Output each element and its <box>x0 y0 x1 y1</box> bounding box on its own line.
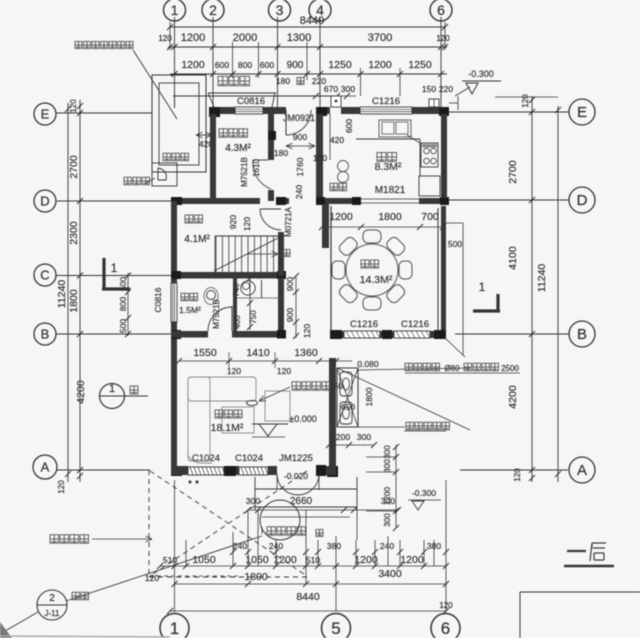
svg-text:2500: 2500 <box>501 364 519 373</box>
svg-text:900: 900 <box>285 308 295 322</box>
svg-text:3: 3 <box>276 2 284 18</box>
svg-text:M0721A: M0721A <box>284 206 293 236</box>
svg-text:120: 120 <box>439 601 453 610</box>
svg-text:J-11: J-11 <box>45 609 61 618</box>
svg-text:900: 900 <box>293 132 307 142</box>
svg-text:C1216: C1216 <box>350 319 378 330</box>
svg-text:4200: 4200 <box>75 380 87 404</box>
svg-text:180: 180 <box>274 148 288 158</box>
svg-text:4100: 4100 <box>507 246 519 270</box>
svg-text:1410: 1410 <box>246 347 270 359</box>
svg-text:1610: 1610 <box>252 159 261 177</box>
svg-text:800: 800 <box>118 297 128 311</box>
svg-text:C: C <box>40 268 49 283</box>
svg-text:1250: 1250 <box>328 59 352 71</box>
svg-text:120: 120 <box>302 324 312 338</box>
svg-text:1360: 1360 <box>294 347 318 359</box>
svg-text:1200: 1200 <box>400 554 424 566</box>
svg-text:3400: 3400 <box>378 568 402 580</box>
svg-text:670: 670 <box>324 84 338 94</box>
svg-text:1200: 1200 <box>329 211 353 223</box>
svg-text:B: B <box>577 326 587 343</box>
svg-text:1200: 1200 <box>181 32 205 44</box>
svg-text:18.1M²: 18.1M² <box>211 422 244 434</box>
svg-text:C0816: C0816 <box>153 287 163 312</box>
svg-text:-0.300: -0.300 <box>468 69 494 79</box>
svg-text:240: 240 <box>380 541 394 551</box>
svg-text:1800: 1800 <box>68 289 80 313</box>
svg-text:510: 510 <box>163 555 177 565</box>
svg-text:2700: 2700 <box>507 160 519 184</box>
svg-text:650: 650 <box>341 402 355 412</box>
svg-text:2000: 2000 <box>233 32 257 44</box>
svg-text:120: 120 <box>513 468 522 482</box>
svg-text:1: 1 <box>171 2 179 18</box>
svg-text:0.080: 0.080 <box>357 359 379 369</box>
svg-text:E: E <box>41 107 50 122</box>
svg-text:300: 300 <box>341 84 355 94</box>
svg-text:1300: 1300 <box>287 32 311 44</box>
svg-text:±0.000: ±0.000 <box>289 414 316 424</box>
svg-text:510: 510 <box>306 555 320 565</box>
svg-text:C1216: C1216 <box>372 96 400 107</box>
svg-text:500: 500 <box>448 239 462 249</box>
svg-text:3700: 3700 <box>368 32 392 44</box>
svg-text:11240: 11240 <box>56 280 68 309</box>
svg-text:100: 100 <box>313 153 327 163</box>
svg-text:JM0921: JM0921 <box>283 113 315 123</box>
svg-text:1: 1 <box>109 383 115 395</box>
svg-text:1550: 1550 <box>193 347 217 359</box>
svg-text:B: B <box>41 327 50 342</box>
svg-text:1: 1 <box>170 619 179 638</box>
svg-text:JM1225: JM1225 <box>279 453 313 464</box>
svg-text:200: 200 <box>336 432 350 442</box>
svg-text:800: 800 <box>238 60 252 70</box>
svg-text:2660: 2660 <box>290 496 313 507</box>
svg-text:4200: 4200 <box>507 385 519 409</box>
svg-text:A: A <box>577 462 587 479</box>
svg-text:2300: 2300 <box>68 221 80 245</box>
svg-text:D: D <box>40 194 49 209</box>
svg-text:150: 150 <box>422 84 436 94</box>
svg-text:1250: 1250 <box>408 59 432 71</box>
svg-text:120: 120 <box>436 34 450 43</box>
svg-text:1200: 1200 <box>354 554 378 566</box>
svg-text:11240: 11240 <box>536 264 548 293</box>
svg-text:D: D <box>577 192 588 209</box>
svg-text:1200: 1200 <box>181 59 205 71</box>
svg-text:500: 500 <box>118 319 128 333</box>
svg-text:2700: 2700 <box>68 155 80 179</box>
svg-text:4.3M²: 4.3M² <box>225 143 251 154</box>
svg-text:300: 300 <box>381 496 395 506</box>
svg-text:2: 2 <box>209 2 217 18</box>
svg-text:150: 150 <box>329 382 343 391</box>
svg-text:120: 120 <box>145 573 159 583</box>
svg-text:900: 900 <box>287 60 304 71</box>
svg-text:4: 4 <box>316 2 324 18</box>
svg-text:600: 600 <box>344 119 354 133</box>
svg-text:300: 300 <box>383 513 392 527</box>
svg-text:A: A <box>41 460 50 475</box>
svg-text:4.1M²: 4.1M² <box>184 234 210 245</box>
svg-text:300: 300 <box>383 445 392 459</box>
svg-text:240: 240 <box>294 185 304 199</box>
svg-text:1800: 1800 <box>378 211 402 223</box>
svg-text:1760: 1760 <box>295 157 305 176</box>
svg-text:120: 120 <box>69 99 78 113</box>
svg-text:14.3M²: 14.3M² <box>360 274 393 286</box>
svg-text:600: 600 <box>215 60 229 70</box>
svg-text:400: 400 <box>233 315 242 329</box>
svg-text:120: 120 <box>57 480 66 494</box>
svg-text:1800: 1800 <box>364 387 374 406</box>
svg-text:M7521B: M7521B <box>212 299 221 329</box>
svg-text:180: 180 <box>276 76 290 86</box>
svg-text:380: 380 <box>427 541 441 551</box>
svg-text:240: 240 <box>269 541 283 551</box>
svg-text:1200: 1200 <box>273 554 297 566</box>
svg-text:-0.300: -0.300 <box>412 488 436 498</box>
svg-text:120: 120 <box>277 366 291 376</box>
svg-text:120: 120 <box>521 94 530 108</box>
svg-text:6: 6 <box>441 619 450 638</box>
svg-text:120: 120 <box>242 217 252 231</box>
svg-text:1.5M²: 1.5M² <box>179 305 201 315</box>
svg-text:6: 6 <box>437 2 445 18</box>
svg-text:380: 380 <box>327 541 341 551</box>
svg-text:1800: 1800 <box>244 571 268 583</box>
svg-text:920: 920 <box>228 215 238 229</box>
svg-text:1050: 1050 <box>192 554 216 566</box>
svg-text:C0816: C0816 <box>237 96 265 107</box>
svg-text:600: 600 <box>260 60 274 70</box>
svg-text:1200: 1200 <box>368 59 392 71</box>
svg-text:C1024: C1024 <box>235 453 263 464</box>
svg-text:420: 420 <box>330 135 344 145</box>
svg-text:2: 2 <box>49 593 55 604</box>
svg-text:Ø80: Ø80 <box>444 364 460 373</box>
svg-text:8440: 8440 <box>296 591 320 603</box>
svg-text:5: 5 <box>331 619 340 638</box>
svg-text:M7521B: M7521B <box>240 157 249 187</box>
svg-text:C1216: C1216 <box>401 319 429 330</box>
svg-text:M1821: M1821 <box>375 185 406 196</box>
svg-text:240: 240 <box>233 541 247 551</box>
svg-text:900: 900 <box>285 277 295 291</box>
svg-text:1050: 1050 <box>245 554 269 566</box>
svg-text:1: 1 <box>479 280 486 294</box>
svg-text:300: 300 <box>383 459 392 473</box>
svg-text:E: E <box>577 104 587 121</box>
svg-text:300: 300 <box>357 432 371 442</box>
svg-text:1: 1 <box>111 261 118 275</box>
svg-text:8.3M²: 8.3M² <box>375 161 402 173</box>
svg-text:700: 700 <box>421 211 439 223</box>
svg-text:750: 750 <box>249 310 258 324</box>
svg-text:300: 300 <box>246 496 260 506</box>
svg-text:740: 740 <box>232 283 241 297</box>
